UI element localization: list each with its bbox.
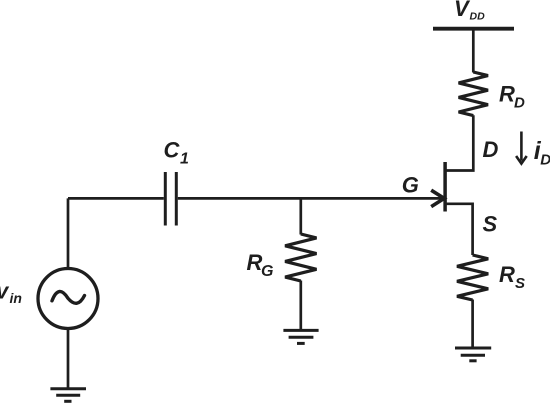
resistor RG <box>285 234 316 281</box>
svg-text:in: in <box>10 290 22 306</box>
resistor RD <box>459 72 488 116</box>
label i_D <box>534 137 550 169</box>
svg-text:DD: DD <box>470 11 486 23</box>
ground (vin) <box>50 389 86 402</box>
current arrow i_D <box>516 132 527 164</box>
resistor RS <box>457 255 488 300</box>
label R_S <box>499 262 525 292</box>
sine symbol <box>52 291 85 303</box>
svg-text:1: 1 <box>180 151 189 168</box>
ground (RS) <box>455 348 491 361</box>
wire RD to drain lead <box>445 115 473 170</box>
power rail VDD <box>433 27 514 31</box>
wire rail to RD <box>472 29 475 73</box>
ground (RG) <box>283 330 318 343</box>
capacitor C1 plates <box>165 172 176 226</box>
transistor source lead <box>447 204 473 255</box>
svg-text:R: R <box>499 82 515 107</box>
svg-text:V: V <box>454 0 471 21</box>
svg-text:G: G <box>261 263 273 280</box>
wire RG to ground <box>299 281 302 331</box>
transistor gate bar <box>443 162 447 212</box>
svg-text:C: C <box>164 137 181 162</box>
wire RS to ground <box>471 300 474 349</box>
gate wire with arrow <box>178 190 444 206</box>
svg-text:S: S <box>483 212 498 237</box>
label v_in <box>0 278 22 306</box>
label R_G <box>247 250 274 280</box>
main wire vin to capacitor <box>68 197 164 200</box>
left vertical wire to source <box>67 198 70 269</box>
svg-text:D: D <box>540 151 550 168</box>
svg-text:G: G <box>402 172 419 197</box>
svg-text:D: D <box>483 137 499 162</box>
node to RG branch wire <box>299 198 302 234</box>
source circle vin <box>38 269 98 329</box>
svg-text:D: D <box>514 95 525 112</box>
wire vin to ground <box>67 329 70 389</box>
svg-text:R: R <box>499 262 515 287</box>
label V_DD <box>454 0 485 23</box>
label R_D <box>499 82 525 112</box>
svg-text:S: S <box>515 275 525 292</box>
label C_1 <box>164 137 190 167</box>
